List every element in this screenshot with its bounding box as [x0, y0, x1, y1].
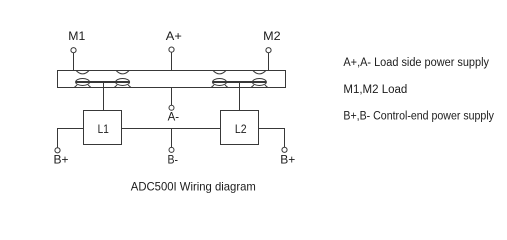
wire A+ to busbar: [171, 52, 173, 70]
wire busbar to A- terminal: [171, 88, 173, 106]
socket contact 3: [213, 71, 226, 74]
wire L2 to B+ right: [259, 129, 285, 148]
wire B+ left to L1: [58, 129, 84, 148]
label B+ right: [280, 153, 295, 167]
terminal A-: [169, 105, 174, 110]
wire M2 to busbar: [268, 53, 270, 71]
terminal block busbar: [58, 71, 286, 88]
svg-text:M1,M2 Load: M1,M2 Load: [343, 84, 407, 96]
wire bus to B- terminal: [171, 129, 173, 148]
svg-text:B+: B+: [54, 153, 69, 167]
socket contact 1: [76, 71, 89, 74]
label B-: [168, 153, 179, 167]
legend line A+,A-: [343, 57, 489, 69]
wire L1 to L2: [122, 128, 221, 130]
svg-text:A+,A- Load side power supply: A+,A- Load side power supply: [343, 57, 489, 69]
svg-text:B-: B-: [168, 153, 179, 167]
terminal B-: [169, 147, 174, 152]
plug contact 3: [211, 79, 228, 88]
wire M1 to busbar: [73, 53, 75, 71]
wire busbar to L2: [239, 82, 241, 111]
svg-text:B+,B- Control-end power supply: B+,B- Control-end power supply: [343, 110, 494, 122]
svg-text:M2: M2: [263, 29, 281, 43]
terminal A+: [169, 47, 174, 52]
svg-text:A+: A+: [166, 29, 182, 43]
svg-text:ADC500I Wiring diagram: ADC500I Wiring diagram: [131, 180, 256, 194]
label A+: [166, 29, 182, 43]
svg-text:A-: A-: [168, 110, 179, 124]
caption ADC500I Wiring diagram: [131, 180, 256, 194]
plug contact 2: [114, 79, 131, 88]
terminal B+ right: [282, 147, 287, 152]
label A-: [168, 110, 179, 124]
jumper link left pair: [76, 81, 130, 83]
terminal B+ left: [55, 148, 60, 153]
terminal M1: [71, 48, 76, 53]
jumper link right pair: [213, 81, 267, 83]
legend line M1,M2: [343, 84, 407, 96]
plug contact 1: [74, 79, 91, 88]
load L2: [221, 111, 259, 145]
legend line B+,B-: [343, 110, 494, 122]
socket contact 2: [116, 71, 129, 74]
svg-text:M1: M1: [68, 29, 85, 43]
label M1: [68, 29, 85, 43]
wire busbar to L1: [103, 82, 105, 111]
label M2: [263, 29, 281, 43]
label B+ left: [54, 153, 69, 167]
socket contact 4: [253, 71, 266, 74]
load L1: [84, 111, 122, 145]
terminal M2: [266, 48, 271, 53]
svg-text:B+: B+: [280, 153, 295, 167]
plug contact 4: [251, 79, 268, 88]
svg-text:L1: L1: [98, 122, 109, 136]
svg-text:L2: L2: [235, 122, 247, 136]
